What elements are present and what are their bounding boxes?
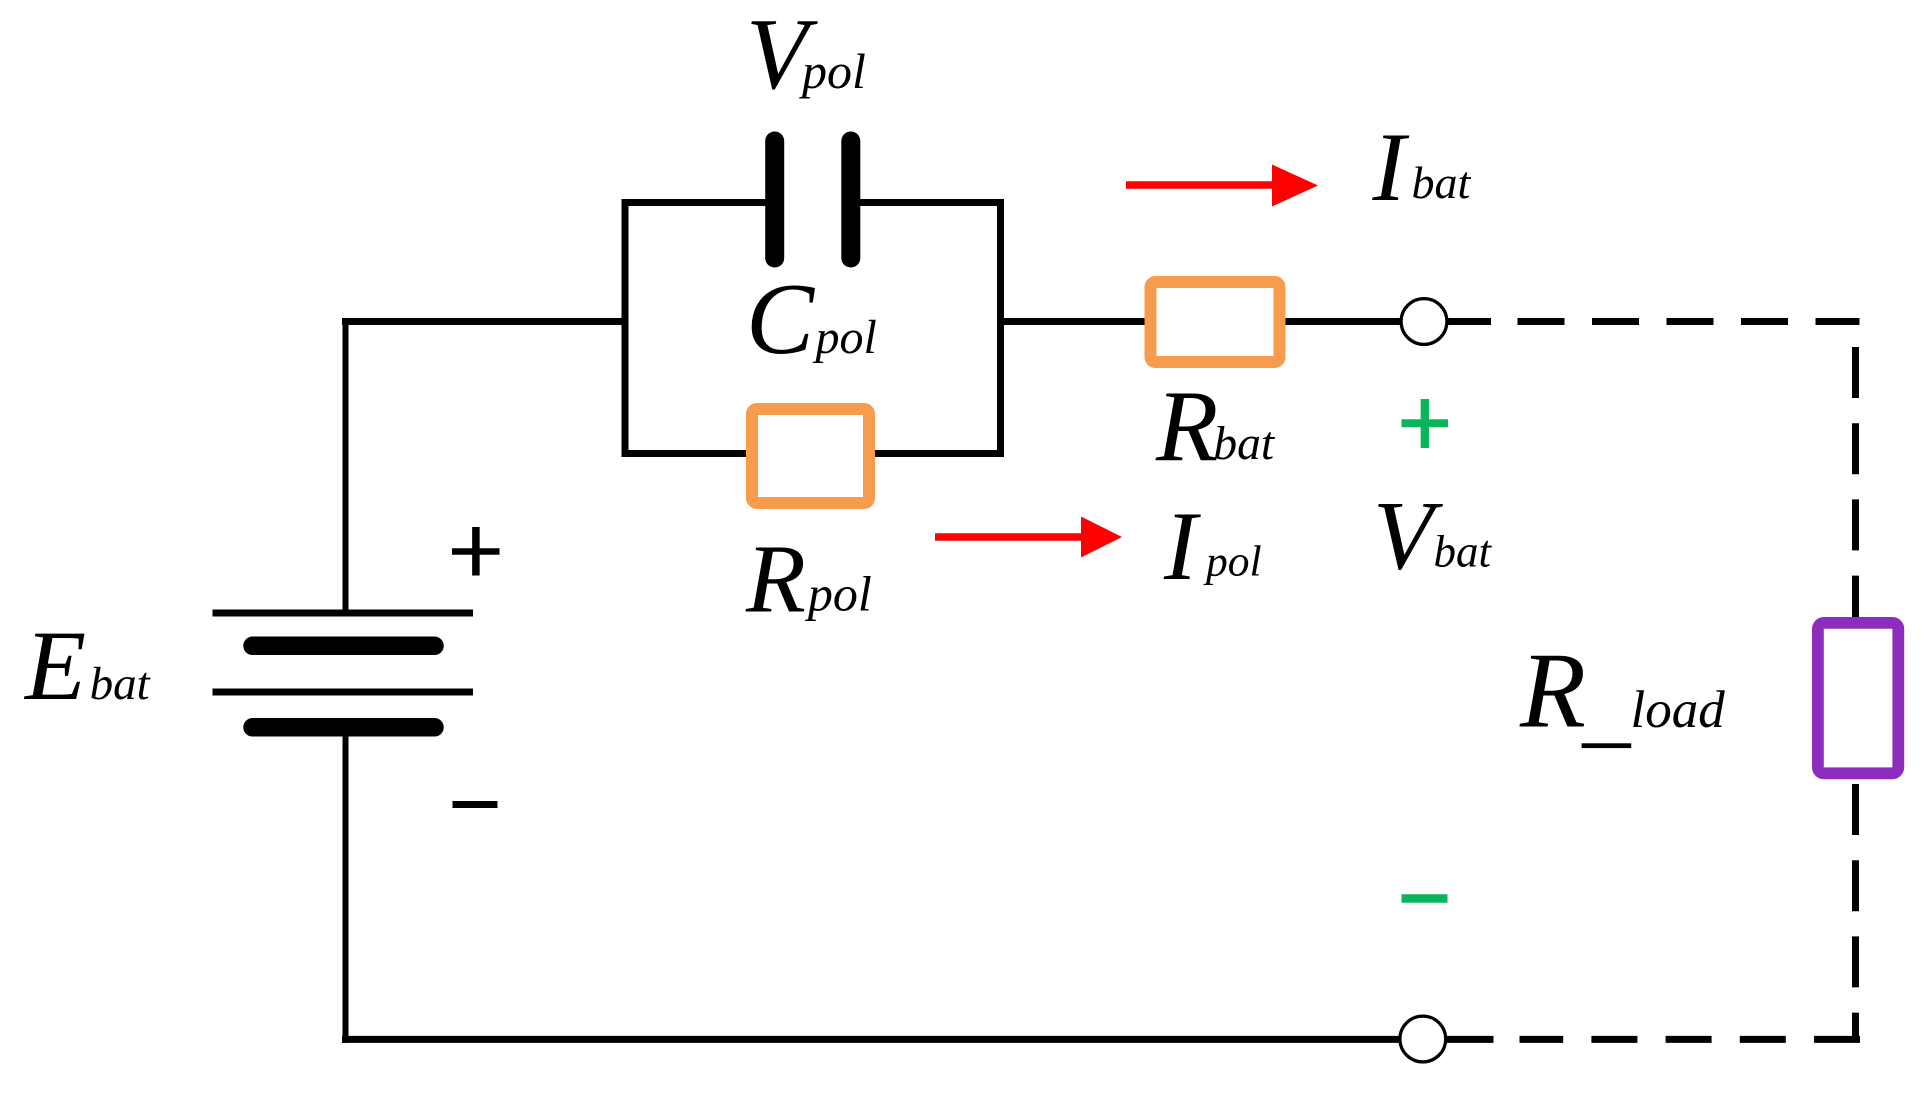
wire: loop bottom-left segment (622, 450, 753, 457)
wire: loop top-left segment (622, 199, 771, 206)
wire: R_bat to top terminal (1280, 318, 1402, 325)
wire: loop to R_bat (997, 318, 1150, 325)
label I_pol (1163, 492, 1262, 601)
current arrow I_pol (935, 517, 1122, 558)
polarity + V_bat (green) (1402, 399, 1449, 448)
label V_bat (1373, 482, 1492, 591)
polarity - (battery) (453, 801, 498, 808)
label C_pol (746, 263, 877, 376)
label E_bat (23, 610, 151, 721)
wire: loop bottom-right segment (869, 450, 1004, 457)
polarity + (battery) (452, 527, 500, 576)
wire: bottom terminal to dashed run (1446, 1036, 1494, 1043)
label R_bat (1155, 371, 1276, 484)
wire: battery negative vertical (343, 730, 349, 1043)
wire: top dashed horizontal (1518, 318, 1860, 325)
wire: loop right vertical (997, 199, 1004, 457)
wire: bottom dashed horizontal (1520, 1036, 1861, 1043)
svg-text:R: R (1519, 632, 1586, 751)
current arrow I_bat (1126, 165, 1318, 207)
terminal node bottom (1400, 1016, 1446, 1062)
wire: top terminal to dashed run (1447, 318, 1491, 325)
resistor R_load (1818, 623, 1898, 773)
terminal node top (1401, 299, 1447, 345)
label R_load (1519, 632, 1725, 751)
wire: loop left vertical (622, 199, 629, 457)
label V_pol (746, 0, 866, 110)
resistor R_bat (1151, 282, 1280, 362)
wire: loop top-right segment (856, 199, 1004, 206)
label I_bat (1372, 113, 1472, 222)
wire: right dashed vertical upper (1852, 347, 1859, 618)
wire: horizontal from battery to parallel loop (342, 318, 628, 325)
svg-text:load: load (1631, 681, 1726, 739)
wire: bottom main horizontal (342, 1036, 1400, 1043)
label R_pol (745, 526, 872, 634)
wire: battery positive vertical (343, 318, 349, 613)
polarity - V_bat (green) (1402, 894, 1448, 903)
wire: right dashed vertical lower (1852, 784, 1859, 1039)
battery E_bat (213, 613, 474, 727)
resistor R_pol (752, 409, 869, 503)
capacitor C_pol (775, 141, 851, 258)
